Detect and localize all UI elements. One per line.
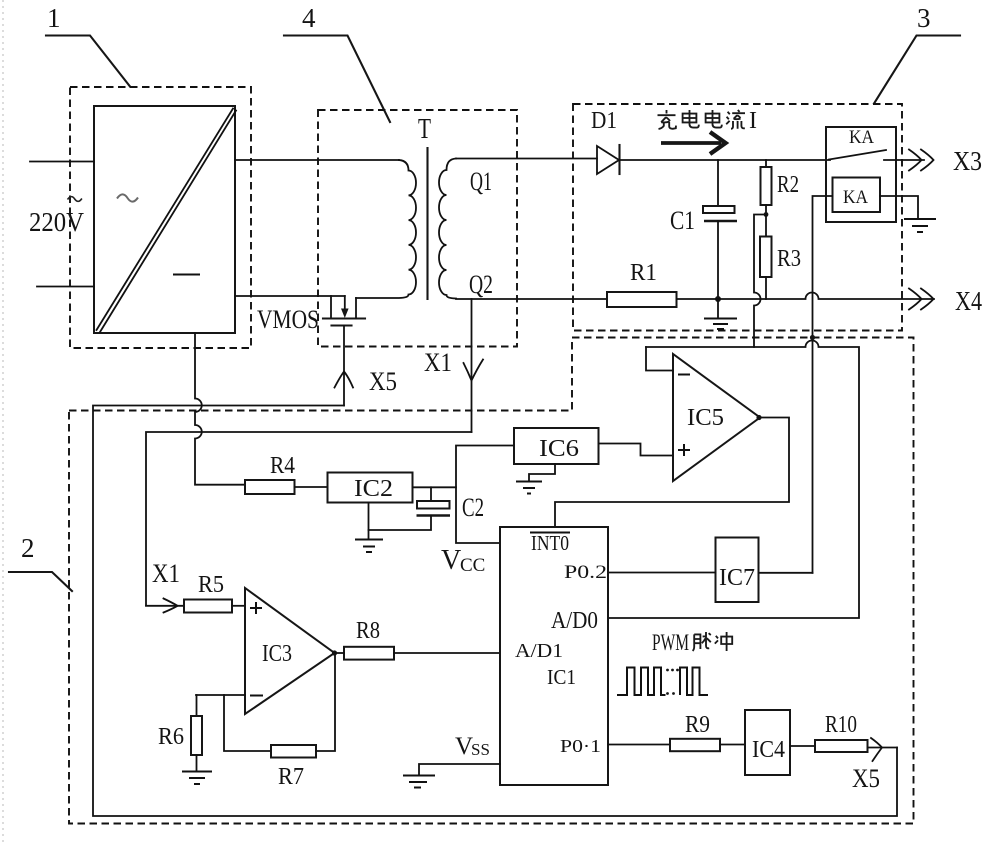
resistor R9 (670, 739, 720, 751)
wire R7 to output node (316, 653, 335, 751)
op-amp IC5 (673, 354, 760, 481)
relay KA contact box (826, 127, 924, 222)
VMOS transistor Q (323, 296, 365, 326)
IC2 block (328, 473, 413, 503)
resistor R1 (607, 292, 677, 307)
PWM pulse waveform (617, 668, 708, 696)
waveform dots (666, 669, 679, 695)
wire 220V line input top (30, 161, 94, 163)
wire IC6 ground leg (529, 464, 555, 481)
IC4 block (745, 710, 790, 775)
svg-text:C1: C1 (670, 206, 695, 235)
svg-text:220V: 220V (29, 207, 84, 237)
wire 220V line input bottom (37, 286, 94, 288)
svg-text:X1: X1 (424, 348, 452, 377)
label 4 (transformer unit) (284, 3, 390, 122)
svg-text:3: 3 (917, 3, 931, 33)
wire secondary bottom (Q2) to R1 (456, 298, 607, 300)
wire X1 to R5 (146, 605, 184, 607)
resistor R6 (191, 695, 202, 771)
ground (IC6) (516, 482, 542, 494)
ground (Vss) (403, 776, 435, 788)
wire IC4 to R10 (790, 745, 815, 747)
svg-text:VMOS: VMOS (257, 305, 319, 334)
Vss label (455, 733, 490, 760)
wire R5 to IC3 plus (232, 605, 245, 607)
node C1/R1 junction dot (715, 296, 721, 302)
wire D1 cathode to relay contact (620, 159, 831, 161)
svg-text:R3: R3 (777, 246, 801, 272)
wire Vcc rail vertical (456, 446, 514, 544)
label 3 (output unit) (874, 3, 960, 104)
transformer primary winding (356, 160, 416, 298)
svg-text:CC: CC (460, 555, 485, 576)
label 2 (control unit) (9, 533, 72, 591)
wire IC7 to relay coil riser (759, 572, 813, 574)
PWM label (652, 630, 732, 655)
wire P0.2 to IC7 (608, 572, 716, 574)
wire P0.1 to R9 (608, 744, 670, 746)
connector X5 up-arrow (335, 372, 354, 388)
wire minus node down to R7 (224, 695, 271, 751)
dashed box unit 1 (70, 87, 251, 348)
capacitor C2 (369, 487, 451, 530)
ground (IC2/C2) (355, 540, 383, 553)
pin INT0 (with overline) (530, 531, 570, 555)
label 1 (rectifier unit) (46, 3, 130, 87)
wire cross link to left leg (146, 432, 472, 606)
node IC3 output dot (332, 650, 337, 655)
resistor R7 (271, 745, 316, 758)
svg-text:X5: X5 (852, 764, 880, 793)
MCU IC1 block (500, 527, 608, 785)
svg-text:R8: R8 (356, 618, 380, 644)
resistor R10 (815, 740, 868, 752)
svg-text:IC5: IC5 (687, 405, 724, 431)
svg-text:PWM: PWM (652, 630, 689, 655)
wire R9 to IC4 (720, 744, 745, 746)
svg-text:SS: SS (471, 740, 490, 759)
wire IC3 minus input node (196, 694, 245, 696)
diode D1 (597, 145, 620, 174)
svg-text:IC7: IC7 (719, 565, 755, 591)
wire IC6 output to IC5 plus input (599, 444, 674, 456)
resistor R2 (761, 160, 772, 215)
wire Vss pin (419, 764, 500, 775)
svg-text:IC1: IC1 (547, 665, 576, 689)
wire rectifier bottom output to VMOS source (235, 295, 345, 297)
charging current arrow (661, 132, 726, 154)
transformer core (426, 148, 428, 299)
resistor R3 (760, 215, 772, 300)
wire IC2 ground leg (368, 503, 370, 540)
wire R4 to IC2 (295, 486, 328, 488)
svg-text:1: 1 (47, 3, 61, 33)
ground (C1) (704, 299, 737, 329)
svg-text:Q2: Q2 (469, 270, 493, 299)
resistor R8 (344, 647, 394, 660)
svg-text:IC4: IC4 (752, 737, 785, 763)
connector X5 right-arrow (871, 738, 882, 761)
dashed box unit 3 (573, 104, 902, 331)
rectifier block U (AC/DC) (94, 106, 236, 333)
dashed box unit 4 (318, 110, 517, 347)
svg-text:A/D0: A/D0 (551, 608, 598, 634)
wire divider tap down to comparator rail (hop over R1 wire) (754, 215, 766, 348)
svg-text:IC2: IC2 (354, 476, 393, 502)
svg-text:KA: KA (843, 187, 868, 208)
svg-text:X4: X4 (955, 286, 982, 316)
svg-text:V: V (441, 545, 461, 576)
wire rectifier DC+ output to transformer primary (235, 159, 399, 161)
svg-text:R1: R1 (630, 260, 657, 286)
connector X3 arrow (909, 150, 934, 171)
svg-text:C2: C2 (462, 493, 484, 522)
wire IC3 apex to R8 (335, 652, 345, 654)
svg-text:Q1: Q1 (470, 167, 492, 196)
resistor R4 (245, 480, 295, 494)
svg-text:A/D1: A/D1 (515, 640, 563, 662)
IC6 block (514, 428, 599, 464)
wire coil right lead to ground (880, 196, 918, 218)
wire R1 to X4 (hop over relay coil wire) (677, 293, 935, 300)
wire R8 to A/D1 (394, 652, 500, 654)
svg-text:X1: X1 (152, 559, 180, 588)
svg-text:X3: X3 (953, 146, 982, 176)
wire X1: Q2 node down through arrow to cross wire (471, 299, 473, 432)
op-amp IC3 (245, 588, 335, 714)
svg-text:IC3: IC3 (262, 641, 292, 667)
wire IC5 minus input from divider rail (646, 347, 673, 371)
transformer secondary winding (439, 159, 456, 299)
svg-text:I: I (749, 108, 757, 134)
wire IC5 output to INT0 (555, 418, 789, 528)
connector X4 arrow (909, 289, 934, 310)
svg-text:KA: KA (849, 127, 874, 148)
connector X1 right-arrow (164, 599, 178, 613)
dashed box unit 2 (stepped outline) (69, 338, 914, 824)
wire IC2 output to Vcc rail (413, 486, 457, 488)
svg-text:R10: R10 (825, 712, 857, 738)
resistor R5 (184, 600, 232, 613)
svg-text:R6: R6 (158, 724, 184, 750)
node coil lead on box edge (810, 335, 815, 340)
svg-text:P0.2: P0.2 (564, 562, 607, 583)
svg-text:R9: R9 (685, 712, 710, 738)
svg-text:P0·1: P0·1 (560, 736, 601, 756)
wire coil left lead down to IC7 (hops are on crossing wires) (813, 196, 833, 573)
node IC5 output dot (756, 415, 761, 420)
svg-text:IC6: IC6 (539, 436, 579, 462)
wire VMOS gate down to X5 loop (343, 326, 345, 406)
svg-text:R7: R7 (278, 764, 304, 790)
svg-text:T: T (418, 113, 431, 145)
svg-text:INT0: INT0 (531, 531, 569, 555)
Vcc label (441, 545, 485, 576)
ac tilde (68, 197, 82, 202)
IC7 block (716, 538, 759, 603)
svg-text:R5: R5 (198, 572, 224, 598)
svg-text:R2: R2 (777, 172, 799, 198)
wire X5 return loop to VMOS gate (93, 406, 897, 817)
wire R10 to X5 corner (868, 747, 898, 749)
ground (R6) (182, 772, 212, 785)
wire rectifier ground leg down to R4 (with two wire hops) (195, 333, 245, 485)
charging current label 充电电流I (658, 108, 758, 134)
capacitor C1 (703, 160, 737, 299)
wire divider rail across to A/D0 (hop over coil wire) (608, 341, 859, 619)
connector X1 down-arrow (464, 360, 484, 381)
wire secondary top to diode D1 (456, 158, 597, 160)
node R2/R3 junction (764, 212, 769, 217)
svg-text:2: 2 (21, 533, 35, 563)
svg-text:X5: X5 (369, 367, 397, 396)
svg-text:R4: R4 (270, 453, 295, 479)
ground (relay coil) (904, 219, 936, 232)
relay KA coil (833, 178, 881, 213)
svg-text:D1: D1 (591, 108, 617, 134)
svg-text:4: 4 (302, 3, 316, 33)
